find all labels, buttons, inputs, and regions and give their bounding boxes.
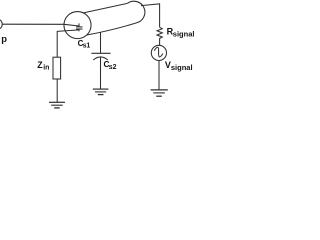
svg-text:p: p: [1, 33, 7, 44]
svg-text:s2: s2: [109, 64, 117, 71]
svg-text:signal: signal: [173, 29, 195, 38]
svg-text:signal: signal: [171, 63, 193, 72]
svg-text:s1: s1: [83, 43, 91, 50]
svg-text:in: in: [43, 64, 49, 71]
